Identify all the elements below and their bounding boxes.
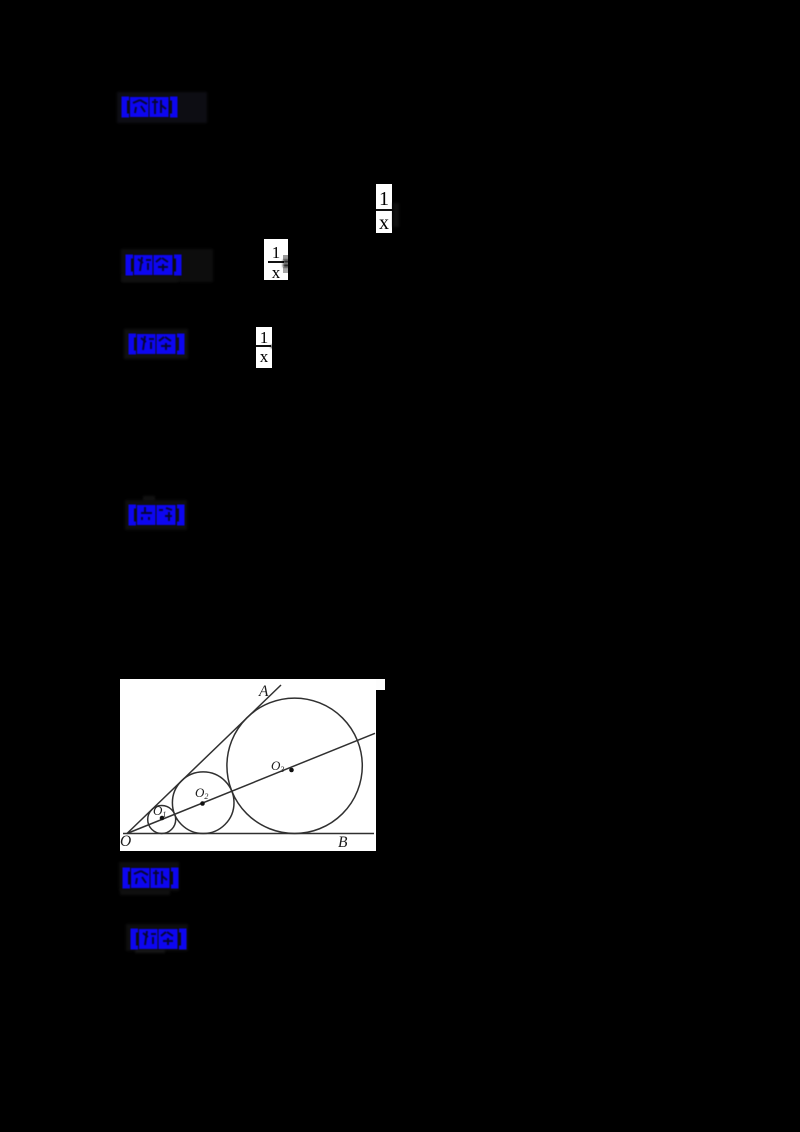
wire: upper ray OA bbox=[127, 685, 281, 834]
halo around label 4 bbox=[125, 500, 187, 530]
circle O1 bbox=[148, 806, 176, 834]
fraction F1: 1/x in white box bbox=[376, 184, 392, 233]
bottom notch under label 6 bbox=[135, 949, 165, 953]
tick right of F3 bar bbox=[271, 345, 274, 348]
halo around label 3 bbox=[124, 329, 188, 359]
extra dark smudge under label 2 bbox=[122, 275, 178, 282]
fraction F2: 1/x in white box with = sign bbox=[264, 239, 288, 280]
white notch at figure top-right bbox=[376, 679, 385, 690]
halo around label 1 bbox=[117, 92, 207, 123]
node dot O3 bbox=[289, 768, 294, 773]
fraction F3: 1/x in white box bbox=[256, 327, 272, 368]
smudge under label 5 bbox=[120, 889, 170, 895]
circle O2 bbox=[172, 772, 234, 834]
label L2 blue 【解答】 bbox=[125, 254, 183, 276]
equals mark right of F2 bbox=[283, 260, 290, 263]
wire: horizontal ray OB bbox=[123, 833, 374, 835]
halo around label 2 bbox=[121, 249, 213, 282]
label L4 blue 【点评】 bbox=[128, 504, 186, 526]
small gray tab above label 4 bbox=[143, 496, 155, 504]
label L6 blue 【解答】 bbox=[130, 928, 188, 950]
node dot O2 bbox=[200, 801, 205, 806]
wire: bisector line through centers bbox=[127, 733, 375, 833]
circle O3 bbox=[227, 698, 362, 833]
svg-text:B: B bbox=[338, 834, 348, 851]
svg-text:O: O bbox=[120, 833, 131, 850]
svg-text:A: A bbox=[258, 683, 269, 700]
gray smudges at right edge of F2 bbox=[283, 255, 288, 260]
fraction bar F2 bbox=[268, 261, 284, 263]
label L3 blue 【解答】 bbox=[128, 333, 186, 355]
halo around label 6 bbox=[126, 924, 188, 951]
fraction bar F1 bbox=[376, 209, 392, 211]
geometry figure: white box with angle O, rays OA/OB, three inscribed circles bbox=[120, 679, 376, 851]
faint smudge right of F1 bbox=[393, 203, 399, 227]
figure background bbox=[120, 679, 376, 851]
label L1 blue 【分析】 bbox=[121, 96, 179, 118]
node dot O1 bbox=[160, 816, 165, 821]
halo around label 5 bbox=[119, 862, 179, 891]
fraction bar F3 bbox=[256, 345, 271, 347]
label L5 blue 【分析】 bbox=[122, 867, 180, 889]
